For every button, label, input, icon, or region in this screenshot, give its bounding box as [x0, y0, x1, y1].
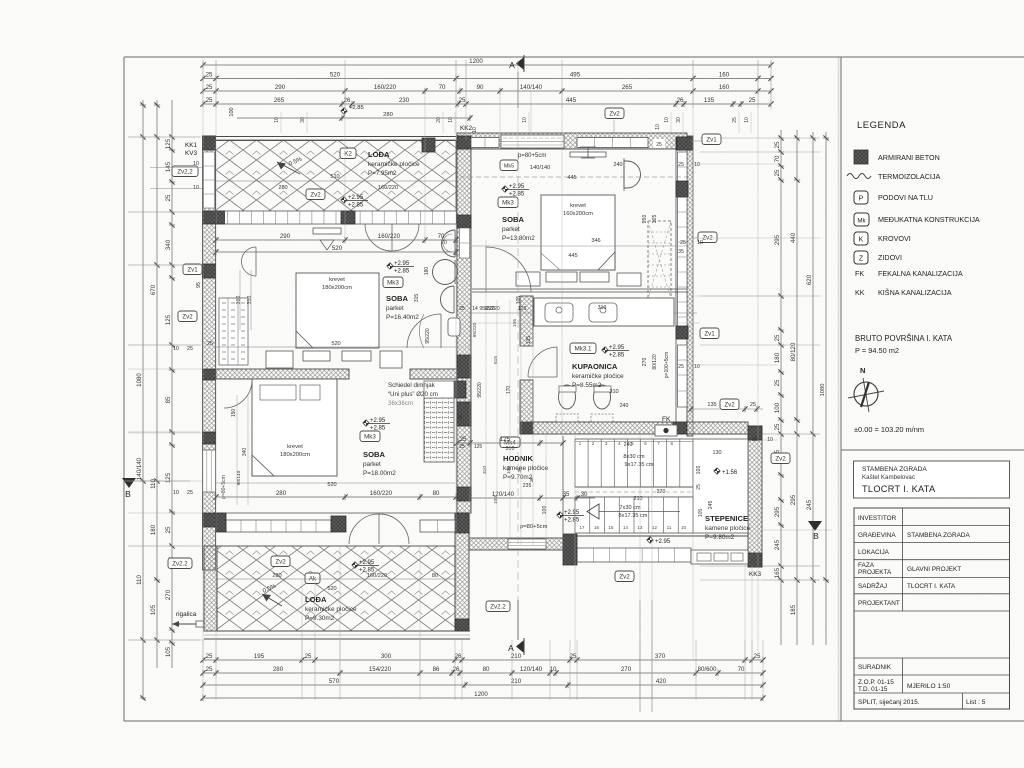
svg-text:+2.95: +2.95 — [348, 195, 364, 201]
svg-text:670: 670 — [150, 284, 157, 295]
door arc bedroom2 — [486, 247, 531, 292]
loggia1 slope arrow — [277, 162, 300, 174]
svg-text:130: 130 — [713, 450, 722, 456]
loggia2 hatched floor — [217, 546, 455, 631]
stairs right exterior wall — [748, 426, 762, 567]
svg-text:125: 125 — [165, 472, 172, 483]
marker Zv2 stairs right — [771, 453, 790, 464]
svg-text:154/220: 154/220 — [369, 666, 392, 673]
svg-text:30: 30 — [676, 117, 682, 123]
bidet bathroom — [594, 385, 611, 409]
svg-text:ARMIRANI BETON: ARMIRANI BETON — [878, 153, 940, 162]
legend zidovi — [854, 251, 868, 264]
svg-text:Schiedel dimnjak: Schiedel dimnjak — [388, 382, 436, 389]
svg-text:180: 180 — [774, 352, 781, 363]
svg-text:445: 445 — [566, 97, 577, 104]
legend medjukatna konstrukcija — [854, 213, 869, 226]
sheet border frame — [124, 56, 1024, 58]
hodnik stairs divider — [562, 436, 564, 536]
hodnik bottom wall — [469, 538, 563, 550]
svg-text:krevet: krevet — [329, 277, 345, 283]
svg-text:25: 25 — [459, 444, 465, 450]
svg-text:17: 17 — [580, 525, 585, 530]
wc sink — [448, 318, 460, 336]
door arc bedroom3 top — [224, 380, 252, 408]
room label bedroom1 SOBA 16.40 — [387, 263, 393, 269]
svg-text:140/140: 140/140 — [136, 457, 143, 480]
svg-text:10: 10 — [694, 162, 700, 168]
svg-text:105: 105 — [150, 604, 157, 615]
svg-text:P=9.30m2: P=9.30m2 — [305, 615, 335, 622]
svg-text:SADRŽAJ: SADRŽAJ — [858, 581, 887, 590]
svg-text:95/220: 95/220 — [425, 328, 431, 344]
construction grid vertical extension lines — [202, 60, 204, 660]
svg-text:B: B — [813, 531, 819, 541]
svg-text:25: 25 — [187, 490, 193, 496]
svg-text:STAMBENA ZGRADA: STAMBENA ZGRADA — [907, 532, 970, 539]
svg-text:25: 25 — [754, 653, 761, 660]
svg-text:135: 135 — [704, 97, 715, 104]
svg-text:10: 10 — [173, 490, 179, 496]
loggia1 window band to rooms — [216, 211, 457, 224]
svg-text:95/220: 95/220 — [477, 382, 483, 398]
svg-text:25: 25 — [752, 437, 758, 443]
bottom dimension row 3 — [203, 684, 763, 686]
svg-text:FK: FK — [855, 269, 864, 278]
svg-text:25: 25 — [732, 117, 738, 123]
svg-text:N: N — [860, 366, 865, 375]
svg-text:270: 270 — [165, 589, 172, 600]
door arc wc — [407, 314, 441, 348]
svg-text:Z: Z — [859, 256, 864, 263]
svg-text:36: 36 — [458, 414, 464, 420]
svg-text:265: 265 — [274, 97, 285, 104]
loggia2 left wall — [204, 546, 217, 631]
svg-text:210: 210 — [511, 678, 522, 685]
wc toilet bowl circle — [433, 260, 458, 285]
svg-text:10: 10 — [193, 185, 199, 191]
svg-text:160/220: 160/220 — [374, 84, 397, 91]
svg-text:70: 70 — [774, 155, 781, 162]
svg-text:245: 245 — [708, 501, 714, 510]
svg-text:210: 210 — [511, 653, 522, 660]
svg-text:Zv1: Zv1 — [704, 331, 715, 338]
svg-text:Zv2: Zv2 — [724, 402, 735, 409]
svg-text:90/140: 90/140 — [236, 470, 242, 485]
stairs mid divider — [575, 486, 693, 488]
svg-text:25: 25 — [750, 402, 756, 408]
svg-text:keramičke pločice: keramičke pločice — [572, 373, 624, 380]
top wall cells left — [471, 138, 499, 148]
svg-text:105: 105 — [165, 646, 172, 657]
svg-text:10: 10 — [193, 161, 199, 167]
svg-text:25: 25 — [774, 334, 781, 341]
svg-text:+2.95: +2.95 — [394, 261, 410, 267]
top wall of right bedroom — [457, 133, 687, 149]
benches bedroom1 — [266, 351, 293, 368]
svg-text:FEKALNA KANALIZACIJA: FEKALNA KANALIZACIJA — [878, 269, 963, 278]
svg-text:25: 25 — [678, 162, 684, 168]
top extension lines — [202, 60, 204, 108]
stairs entrance door band — [691, 550, 748, 564]
svg-text:180x200cm: 180x200cm — [322, 285, 352, 291]
bathroom bottom inner line — [533, 421, 687, 423]
svg-text:SURADNIK: SURADNIK — [858, 664, 892, 671]
svg-text:25: 25 — [206, 653, 213, 660]
svg-text:+2.85: +2.85 — [394, 269, 410, 275]
svg-text:parket: parket — [386, 305, 404, 312]
svg-text:K: K — [859, 237, 864, 244]
chimney block — [424, 398, 454, 462]
left extension ticks — [128, 136, 200, 138]
spine wall white cells — [460, 228, 470, 258]
svg-text:370: 370 — [657, 489, 666, 495]
svg-text:List : 5: List : 5 — [966, 699, 986, 706]
svg-text:170: 170 — [506, 386, 512, 395]
svg-text:240: 240 — [620, 403, 629, 409]
svg-text:25: 25 — [680, 240, 686, 246]
svg-text:160: 160 — [719, 84, 730, 91]
svg-text:KV3: KV3 — [185, 150, 198, 157]
vanity dim row — [470, 312, 697, 314]
stairs direction arrow — [587, 504, 599, 519]
svg-text:25: 25 — [165, 194, 172, 201]
svg-text:B: B — [125, 489, 131, 499]
loggia2 slope arrow — [262, 594, 282, 606]
svg-text:26: 26 — [344, 97, 351, 104]
right dimension column a — [780, 130, 782, 645]
svg-text:310: 310 — [247, 296, 253, 305]
loggia1 level — [341, 197, 347, 203]
svg-text:195: 195 — [254, 653, 265, 660]
svg-text:Mk5: Mk5 — [504, 164, 514, 170]
svg-text:1080: 1080 — [136, 373, 143, 387]
svg-text:70: 70 — [439, 84, 446, 91]
svg-text:36x36cm: 36x36cm — [388, 400, 413, 407]
svg-text:P = 94.50 m2: P = 94.50 m2 — [855, 346, 899, 355]
bed bedroom1 left 180x200 — [296, 273, 379, 348]
svg-text:PODOVI NA TLU: PODOVI NA TLU — [878, 193, 933, 202]
svg-text:Kaštel Kambelovac: Kaštel Kambelovac — [862, 474, 915, 481]
bedroom3 bottom dims — [216, 496, 456, 498]
svg-text:K2: K2 — [344, 151, 352, 158]
svg-text:100: 100 — [696, 466, 702, 475]
svg-text:P=7.95m2: P=7.95m2 — [368, 170, 397, 177]
svg-text:280: 280 — [272, 573, 281, 579]
loggia1 top-right concrete column — [422, 138, 435, 152]
svg-text:125: 125 — [165, 138, 172, 149]
title table frame — [854, 508, 1010, 709]
marker Zv2 below stairs — [615, 571, 634, 582]
svg-text:1200: 1200 — [469, 58, 483, 65]
svg-text:STAMBENA ZGRADA: STAMBENA ZGRADA — [862, 466, 927, 473]
svg-text:25: 25 — [570, 653, 577, 660]
dim row above stairs with Zv2 — [691, 408, 763, 410]
svg-text:+2.85: +2.85 — [349, 105, 364, 111]
svg-text:86: 86 — [433, 666, 440, 673]
svg-text:420: 420 — [656, 678, 667, 685]
svg-text:210: 210 — [634, 496, 643, 502]
svg-text:35: 35 — [563, 491, 570, 498]
svg-text:PROJEKTANT: PROJEKTANT — [858, 600, 900, 607]
svg-text:13: 13 — [638, 525, 643, 530]
left dimension column inner — [171, 100, 173, 668]
svg-text:520: 520 — [332, 245, 343, 252]
svg-text:A: A — [508, 643, 514, 653]
svg-text:135: 135 — [707, 402, 716, 408]
svg-text:25: 25 — [187, 346, 193, 352]
svg-text:TLOCRT I. KATA: TLOCRT I. KATA — [862, 484, 936, 494]
tv table bedroom1 — [313, 228, 341, 234]
svg-text:240: 240 — [624, 442, 633, 448]
svg-text:20: 20 — [436, 117, 442, 123]
svg-text:14: 14 — [472, 306, 478, 312]
svg-text:310: 310 — [598, 305, 607, 311]
section line A dashed — [517, 140, 519, 600]
svg-text:135: 135 — [526, 336, 532, 345]
svg-text:Mk: Mk — [857, 218, 866, 225]
hodnik level and p label — [557, 512, 563, 518]
legend termoizolacija — [847, 174, 871, 179]
top sub-dimension 280 with level mark — [237, 117, 470, 119]
svg-text:100: 100 — [493, 496, 499, 504]
svg-text:70: 70 — [738, 666, 745, 673]
marker Zv2.2 left bottom — [168, 558, 192, 569]
svg-text:160/220: 160/220 — [378, 233, 401, 240]
svg-text:295: 295 — [790, 494, 797, 505]
svg-text:35: 35 — [517, 467, 523, 473]
right exterior wall — [687, 136, 693, 436]
svg-text:SOBA: SOBA — [363, 450, 385, 459]
svg-text:290: 290 — [280, 233, 291, 240]
svg-text:10: 10 — [522, 117, 528, 123]
svg-text:INVESTITOR: INVESTITOR — [858, 515, 897, 522]
top wall cells right — [577, 138, 648, 148]
svg-text:16: 16 — [594, 525, 599, 530]
svg-text:615: 615 — [493, 356, 499, 364]
svg-text:85: 85 — [165, 396, 172, 403]
bedroom2 interior dims — [472, 245, 687, 247]
svg-text:90: 90 — [477, 84, 484, 91]
loggia1 top parapet — [202, 136, 456, 138]
legend podovi na tlu — [854, 191, 868, 204]
svg-text:+2.85: +2.85 — [609, 353, 625, 359]
svg-text:MJERILO 1:50: MJERILO 1:50 — [907, 683, 951, 690]
svg-text:P=18.00m2: P=18.00m2 — [363, 470, 396, 477]
svg-text:165: 165 — [774, 567, 781, 578]
svg-text:95: 95 — [196, 282, 202, 288]
svg-text:10: 10 — [655, 124, 661, 130]
svg-text:520: 520 — [327, 482, 336, 488]
right dimension column b — [796, 130, 798, 645]
svg-text:10: 10 — [744, 117, 750, 123]
svg-text:80/120: 80/120 — [652, 354, 658, 370]
svg-text:SOBA: SOBA — [502, 215, 524, 224]
svg-text:30: 30 — [581, 491, 588, 498]
svg-text:25: 25 — [206, 72, 213, 79]
svg-text:245: 245 — [806, 499, 813, 510]
svg-text:KIŠNA KANALIZACIJA: KIŠNA KANALIZACIJA — [878, 288, 952, 297]
bottom extension lines — [202, 640, 204, 700]
svg-text:25: 25 — [207, 341, 213, 347]
svg-text:P=13.80m2: P=13.80m2 — [502, 235, 535, 242]
svg-text:P=9.80m2: P=9.80m2 — [705, 534, 735, 541]
svg-text:KUPAONICA: KUPAONICA — [572, 362, 618, 371]
room label loggia1 — [340, 148, 356, 159]
top wall thickness labels — [653, 139, 665, 148]
left wall window cells upper — [204, 152, 215, 208]
bed bedroom3 lower-left 180x200 — [252, 379, 337, 476]
room label bedroom3 SOBA 18.00 — [363, 420, 369, 426]
svg-text:12: 12 — [652, 525, 657, 530]
svg-text:240: 240 — [613, 162, 622, 168]
svg-text:80: 80 — [432, 573, 438, 579]
svg-text:520: 520 — [327, 586, 336, 592]
marker Zv2 top middle — [605, 108, 624, 119]
svg-text:80/600: 80/600 — [698, 666, 717, 673]
stairs lower flight — [575, 497, 693, 533]
svg-text:TERMOIZOLACIJA: TERMOIZOLACIJA — [878, 172, 941, 181]
french door loggia2 — [349, 514, 409, 544]
svg-text:36: 36 — [529, 477, 535, 483]
svg-text:8x30 cm: 8x30 cm — [623, 454, 644, 460]
wc bidet fixture — [441, 286, 454, 313]
svg-text:100: 100 — [542, 506, 548, 515]
svg-text:70: 70 — [441, 240, 447, 246]
room label bedroom2 SOBA 13.80 — [502, 186, 508, 192]
marker Zv1 right top — [702, 134, 721, 145]
svg-text:110: 110 — [150, 479, 157, 489]
svg-text:Mk3.1: Mk3.1 — [575, 346, 592, 353]
svg-text:280: 280 — [278, 185, 287, 191]
door arc bathroom — [528, 347, 557, 377]
svg-text:KROVOVI: KROVOVI — [878, 234, 911, 243]
svg-text:“Uni plus” Ø20 cm: “Uni plus” Ø20 cm — [388, 391, 438, 398]
left inner vertical dim lines — [239, 270, 241, 330]
room label kupaonica — [570, 343, 596, 354]
svg-text:25: 25 — [656, 142, 662, 148]
svg-text:25: 25 — [305, 653, 312, 660]
stairs landing — [693, 439, 748, 533]
svg-text:10: 10 — [173, 346, 179, 352]
svg-text:230: 230 — [399, 97, 410, 104]
legend armirani beton — [854, 150, 868, 164]
svg-text:105: 105 — [698, 509, 704, 518]
svg-text:+2.95: +2.95 — [609, 345, 625, 351]
left label Zv2,2 — [172, 166, 198, 177]
svg-text:Zv2: Zv2 — [182, 314, 193, 321]
svg-text:150: 150 — [231, 409, 237, 418]
svg-text:125: 125 — [500, 436, 511, 443]
svg-text:140/140: 140/140 — [520, 84, 543, 91]
svg-text:P=16.40m2: P=16.40m2 — [386, 314, 419, 321]
svg-text:180: 180 — [150, 524, 157, 535]
svg-text:FAZA: FAZA — [858, 562, 875, 569]
svg-text:25: 25 — [774, 169, 781, 176]
svg-text:1200: 1200 — [474, 691, 488, 698]
left wall concrete blocks — [203, 136, 216, 150]
svg-text:Zv2: Zv2 — [609, 111, 620, 118]
svg-text:10: 10 — [472, 127, 478, 133]
armchair bedroom2 — [624, 161, 641, 188]
svg-text:315: 315 — [414, 294, 420, 303]
svg-text:+2.95: +2.95 — [564, 510, 580, 516]
svg-text:280: 280 — [273, 666, 284, 673]
wall between left bedrooms — [216, 369, 349, 379]
svg-text:295: 295 — [774, 234, 781, 245]
svg-text:STEPENICE: STEPENICE — [705, 514, 748, 523]
svg-text:445: 445 — [568, 253, 577, 259]
loggia2 right wall — [455, 513, 469, 631]
svg-text:Mk3: Mk3 — [387, 280, 399, 287]
svg-text:95/220: 95/220 — [472, 322, 478, 337]
svg-text:95/220: 95/220 — [484, 306, 500, 312]
bedroom3 inner vertical dims — [236, 395, 238, 505]
svg-text:25: 25 — [206, 666, 213, 673]
svg-text:P: P — [859, 196, 864, 203]
svg-text:11: 11 — [667, 525, 672, 530]
svg-text:Mk3: Mk3 — [502, 200, 514, 207]
left dimension column outer — [142, 100, 144, 700]
room label loggia2 — [271, 556, 290, 567]
svg-text:25: 25 — [459, 97, 466, 104]
legend krovovi — [854, 232, 868, 245]
svg-text:10: 10 — [448, 117, 454, 123]
svg-text:265: 265 — [622, 84, 633, 91]
svg-text:LOĐA: LOĐA — [368, 150, 390, 159]
svg-text:LOĐA: LOĐA — [305, 595, 327, 604]
svg-text:Zv2: Zv2 — [619, 574, 630, 581]
svg-text:520: 520 — [330, 72, 341, 79]
scan shadow near sidebar — [838, 57, 840, 721]
central spine wall — [457, 136, 471, 513]
title table column divider — [902, 508, 904, 611]
svg-text:Zv1: Zv1 — [187, 267, 198, 274]
stairs bottom wall with windows — [563, 535, 748, 537]
benches bedroom2 — [516, 272, 540, 286]
svg-text:185: 185 — [790, 604, 797, 615]
top wall window p=80+5cm — [501, 135, 564, 148]
wardrobe dashed bedroom2 — [648, 221, 671, 299]
svg-text:30: 30 — [300, 117, 306, 123]
svg-text:26: 26 — [455, 653, 462, 660]
svg-text:PROJEKTA: PROJEKTA — [858, 569, 892, 576]
svg-text:520: 520 — [331, 341, 340, 347]
svg-text:125: 125 — [518, 306, 527, 312]
svg-text:25: 25 — [460, 436, 467, 443]
svg-text:25: 25 — [206, 97, 213, 104]
svg-text:235: 235 — [523, 483, 532, 489]
svg-text:620: 620 — [806, 274, 813, 285]
svg-text:krevet: krevet — [570, 203, 586, 209]
svg-text:kamene pločice: kamene pločice — [705, 525, 751, 532]
radiator niche bedroom1 — [219, 298, 248, 365]
svg-text:80: 80 — [483, 666, 490, 673]
svg-text:A: A — [509, 60, 515, 70]
bathroom left wall — [520, 296, 533, 346]
svg-text:160/220: 160/220 — [378, 185, 398, 191]
svg-text:8x17.35 cm: 8x17.35 cm — [619, 513, 648, 519]
svg-text:SOBA: SOBA — [386, 294, 408, 303]
svg-text:510: 510 — [330, 174, 339, 180]
svg-text:280: 280 — [276, 490, 287, 497]
svg-text:25: 25 — [206, 84, 213, 91]
svg-text:120/140: 120/140 — [520, 666, 543, 673]
marker Zv2 right middle — [698, 232, 717, 243]
svg-text:570: 570 — [329, 678, 340, 685]
svg-text:270: 270 — [642, 358, 648, 367]
svg-text:290: 290 — [275, 84, 286, 91]
